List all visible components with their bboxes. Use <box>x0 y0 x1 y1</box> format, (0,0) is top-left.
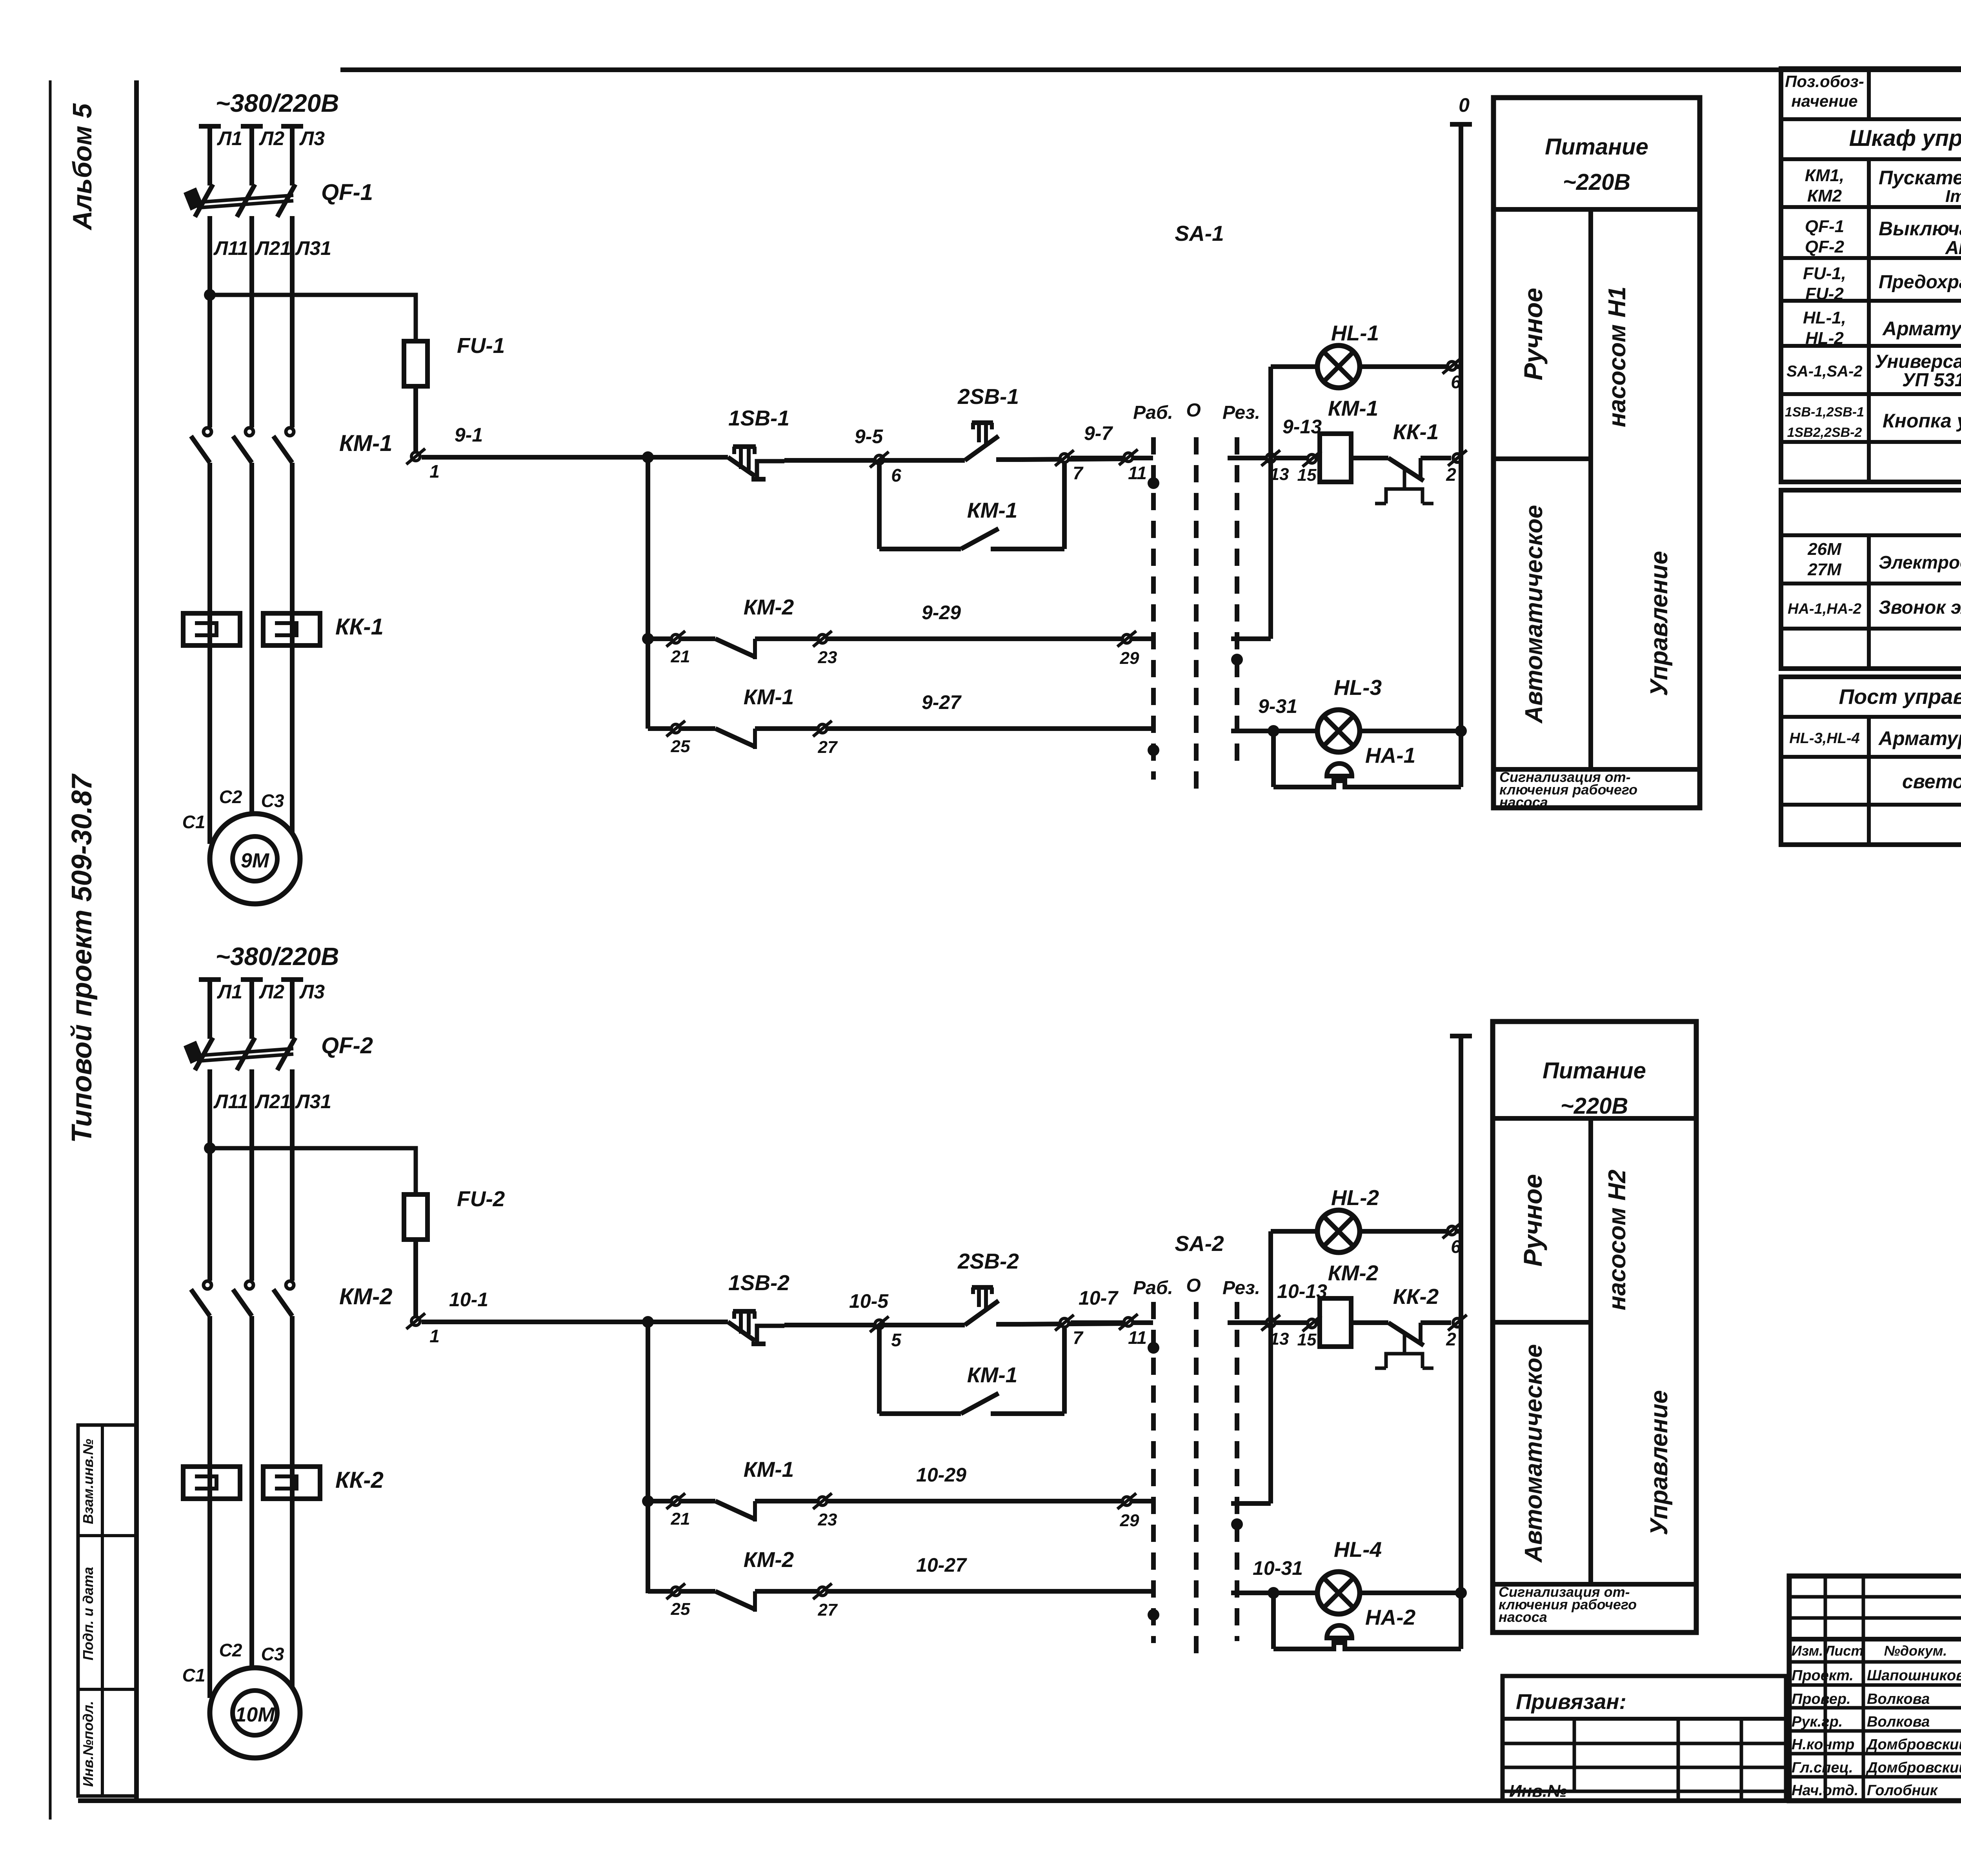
svg-text:15: 15 <box>1297 465 1317 485</box>
bell branch bottom wire (circuit 2) <box>1273 1643 1461 1649</box>
svg-text:21: 21 <box>671 1509 690 1529</box>
phase wire below QF-1 at x=642 <box>249 216 254 427</box>
control rail wire start button to terminal 7 (circuit 2) <box>1021 1323 1128 1324</box>
terminal 11 (circuit 2) <box>1119 1314 1138 1330</box>
motor 10М <box>210 1668 300 1758</box>
svg-text:HL-3,HL-4: HL-3,HL-4 <box>1789 730 1859 747</box>
phase lead Л2 wire (circuit 1) <box>249 126 254 185</box>
signal lamp HL-3 right wire <box>1360 729 1461 733</box>
thermal relay КК-1 heater element at x=671 <box>263 613 320 645</box>
svg-text:Л21: Л21 <box>255 237 291 259</box>
thermal relay contact КК-2 <box>1388 1323 1424 1345</box>
contactor КМ-2 main contact at x=642 <box>246 1281 253 1289</box>
bell branch down wire (circuit 1) <box>1271 731 1276 787</box>
svg-text:HL-1,: HL-1, <box>1803 308 1846 327</box>
thermal relay contact КК-1 <box>1388 458 1424 481</box>
svg-text:Гл.спец.: Гл.спец. <box>1792 1760 1853 1776</box>
svg-text:29: 29 <box>1120 649 1139 668</box>
contactor КМ-1 main contact at x=642 <box>246 428 253 436</box>
legend box outline (circuit 1) <box>1493 98 1700 808</box>
svg-text:10-31: 10-31 <box>1253 1557 1303 1579</box>
junction dot rung A tap (circuit 1) <box>642 633 654 645</box>
svg-text:Рук.гр.: Рук.гр. <box>1792 1714 1843 1730</box>
svg-text:С3: С3 <box>261 791 284 811</box>
svg-text:КК-1: КК-1 <box>335 614 384 640</box>
svg-text:9-27: 9-27 <box>922 691 962 713</box>
attachment block grid row line 2 <box>1503 1766 1786 1769</box>
svg-text:КК-2: КК-2 <box>335 1467 384 1493</box>
svg-text:9-29: 9-29 <box>922 602 961 624</box>
signal lamp HL-1 left wire <box>1271 364 1317 369</box>
selector SA-1 closed-contact dot rung2/Рез <box>1231 654 1243 665</box>
legend box outline (circuit 2) <box>1493 1022 1696 1632</box>
component table block3 row line 3 <box>1781 803 1961 807</box>
terminal 15 (circuit 2) <box>1302 1316 1321 1331</box>
wire fuse FU-1 to control node <box>413 386 418 453</box>
svg-text:21: 21 <box>671 647 690 666</box>
terminal 21 (circuit 2) <box>666 1493 685 1509</box>
terminal 21 (circuit 1) <box>666 631 685 647</box>
terminal 15 (circuit 1) <box>1302 451 1321 467</box>
component table block1 row line 5 <box>1781 299 1961 303</box>
interlock rung A wire (circuit 2) <box>648 1499 715 1503</box>
junction dot on phase Л11 (circuit 1) <box>204 289 216 301</box>
svg-text:Арматура сигнальная с красным: Арматура сигнальная с красным <box>1878 727 1961 749</box>
svg-text:HL-2: HL-2 <box>1805 329 1844 348</box>
auxiliary holding contact КМ-1 (circuit 1) <box>961 529 999 549</box>
terminal 2 (circuit 2) <box>1448 1315 1467 1331</box>
sheet frame left border <box>134 80 139 1801</box>
neutral bus 0 (circuit 2) <box>1459 1036 1463 1649</box>
svg-text:10-29: 10-29 <box>916 1464 966 1486</box>
component table block2 Поз column line <box>1867 535 1871 669</box>
junction dot at bus (signal rung circuit 1) <box>1455 725 1467 737</box>
svg-text:Раб.: Раб. <box>1133 402 1173 423</box>
svg-text:КМ-2: КМ-2 <box>744 1547 794 1572</box>
svg-text:SA-1: SA-1 <box>1175 221 1224 245</box>
phase wire below КМ-2 main contact x=535 <box>207 1316 212 1499</box>
svg-text:HL-3: HL-3 <box>1334 675 1382 700</box>
svg-text:~220В: ~220В <box>1561 1093 1628 1119</box>
signal lamp branch stub to Рез line (circuit 2) <box>1231 1501 1271 1506</box>
component table block1 row line 1 <box>1781 117 1961 121</box>
motor lead C2 wire (circuit 1) <box>249 814 254 815</box>
phase wire below QF-1 at x=745 <box>290 216 295 427</box>
neutral bus 0 (circuit 1) <box>1459 124 1463 787</box>
svg-text:НА-1,НА-2: НА-1,НА-2 <box>1788 601 1861 617</box>
svg-text:насосом Н1: насосом Н1 <box>1604 287 1631 427</box>
component table block3 row line 2 <box>1781 755 1961 759</box>
svg-text:26М: 26М <box>1807 540 1842 559</box>
interlock NC contact КМ-1 (rung A circuit 2) <box>715 1501 755 1519</box>
svg-text:Л31: Л31 <box>295 1091 331 1113</box>
svg-text:Взам.инв.№: Взам.инв.№ <box>80 1439 96 1524</box>
vertical feeder to interlock rungs (circuit 1) <box>646 457 650 729</box>
svg-text:Ручное: Ручное <box>1518 1174 1547 1267</box>
signal lamp HL-2 left wire <box>1271 1229 1317 1234</box>
circuit breaker QF-1 blade at x=642 <box>237 184 255 217</box>
svg-text:Л3: Л3 <box>299 127 325 149</box>
component table column Поз line <box>1867 159 1871 482</box>
svg-text:Л3: Л3 <box>299 981 325 1003</box>
svg-text:1: 1 <box>429 1326 440 1346</box>
svg-text:9-1: 9-1 <box>455 424 483 446</box>
svg-text:1: 1 <box>429 461 440 482</box>
svg-text:11: 11 <box>1128 463 1147 483</box>
control rail wire from node 1 to stop button (circuit 1) <box>422 455 728 460</box>
svg-text:Питание: Питание <box>1545 134 1648 160</box>
svg-text:9-13: 9-13 <box>1282 416 1322 438</box>
svg-text:2SB-2: 2SB-2 <box>957 1249 1019 1273</box>
contactor coil КМ-1 <box>1320 434 1351 482</box>
svg-text:КМ-1: КМ-1 <box>967 1363 1018 1387</box>
title block revision row line 2 <box>1789 1616 1961 1620</box>
terminal 23 (circuit 2) <box>813 1493 832 1509</box>
control rail wire from node 1 to stop button (circuit 2) <box>422 1320 728 1324</box>
attachment block grid column 1 <box>1573 1719 1576 1791</box>
thermal relay КК-2 heater element at x=671 <box>263 1467 320 1499</box>
attachment block grid column 2 <box>1677 1719 1680 1801</box>
interlock NC contact КМ-2 (rung B circuit 2) <box>715 1591 755 1609</box>
legend box column divider (circuit 1) <box>1588 209 1593 769</box>
terminal 7 (circuit 1) <box>1055 450 1074 466</box>
thermal relay КК-2 heater element at x=467 <box>183 1467 240 1499</box>
thermal relay КК-1 heater element at x=467 <box>183 613 240 645</box>
legend box divider Ручное/Автоматическое (circuit 1) <box>1493 456 1591 461</box>
terminal 29 (circuit 1) <box>1117 631 1136 647</box>
terminal 5 (circuit 2) <box>870 1316 889 1332</box>
selector SA-1 closed-contact dot rung3/Раб <box>1148 744 1159 756</box>
svg-text:QF-2: QF-2 <box>321 1033 373 1058</box>
selector SA-2 closed-contact dot rung3/Раб <box>1148 1609 1159 1621</box>
svg-text:КМ-1: КМ-1 <box>744 1457 794 1482</box>
bell branch bottom wire (circuit 1) <box>1273 781 1461 787</box>
circuit breaker QF-1 blade at x=535 <box>195 184 213 217</box>
control rail wire terminal 7 to 11 (circuit 2) <box>1071 1320 1153 1325</box>
svg-text:Шкаф управления 9ШУ (ЯУ5117-03: Шкаф управления 9ШУ (ЯУ5117-03Б2Е) <box>1849 125 1961 151</box>
interlock rung B wire (circuit 2) <box>648 1589 715 1594</box>
wire fuse FU-2 to control node <box>413 1240 418 1318</box>
terminal 2 (circuit 1) <box>1448 450 1467 466</box>
svg-text:Альбом 5: Альбом 5 <box>67 103 97 231</box>
svg-text:Выключатель автоматический тип: Выключатель автоматический типа <box>1879 218 1961 240</box>
svg-text:Проект.: Проект. <box>1792 1667 1854 1684</box>
svg-text:Л2: Л2 <box>259 127 284 149</box>
component table block 2 outline <box>1781 490 1961 669</box>
legend box divider Ручное/Автоматическое (circuit 2) <box>1493 1320 1591 1325</box>
svg-text:Л21: Л21 <box>255 1091 291 1113</box>
motor lead C1 wire (circuit 2) <box>207 1499 212 1698</box>
terminal 27 (circuit 1) <box>813 721 832 736</box>
svg-text:С2: С2 <box>219 787 242 807</box>
svg-text:Автоматическое: Автоматическое <box>1520 1344 1547 1563</box>
svg-text:Изм.: Изм. <box>1792 1643 1823 1659</box>
svg-text:10-5: 10-5 <box>849 1290 889 1312</box>
junction dot feeding interlock rungs (circuit 1) <box>642 451 654 463</box>
svg-text:7: 7 <box>1073 1327 1084 1348</box>
svg-text:Шапошникова: Шапошникова <box>1867 1667 1961 1684</box>
bell branch down wire (circuit 2) <box>1271 1593 1276 1649</box>
coil feed wire from Рез line (circuit 1) <box>1228 456 1320 460</box>
component table block 3 outline <box>1781 677 1961 845</box>
component table header column line 1 <box>1867 69 1871 119</box>
signal lamp branch stub to Рез line (circuit 1) <box>1231 636 1271 641</box>
title block signature row line 1 <box>1789 1660 1961 1664</box>
auxiliary holding contact КМ-1 (circuit 2) <box>961 1393 999 1414</box>
svg-text:29: 29 <box>1120 1511 1139 1530</box>
svg-text:27М: 27М <box>1807 560 1842 579</box>
svg-text:Типовой проект 509-30.87: Типовой проект 509-30.87 <box>66 773 98 1143</box>
svg-text:~380/220В: ~380/220В <box>216 89 339 117</box>
svg-text:27: 27 <box>818 738 838 757</box>
holding contact branch down wire (circuit 1) <box>877 460 882 549</box>
interlock rung A wire (circuit 1) <box>648 636 715 641</box>
terminal 6 at bus (circuit 2) <box>1443 1223 1461 1238</box>
circuit breaker QF-1 blade at x=745 <box>277 184 295 217</box>
svg-text:10-27: 10-27 <box>916 1554 967 1576</box>
svg-text:С2: С2 <box>219 1640 242 1660</box>
legend box column divider (circuit 2) <box>1588 1118 1593 1584</box>
component table block3 row line 1 <box>1781 715 1961 719</box>
svg-text:2: 2 <box>1446 464 1456 485</box>
svg-text:Инв.№: Инв.№ <box>1509 1781 1567 1801</box>
svg-text:Питание: Питание <box>1543 1058 1646 1083</box>
component table block2 row line 1 <box>1781 533 1961 537</box>
svg-text:начение: начение <box>1791 92 1857 110</box>
phase wire below QF-2 at x=535 <box>207 1069 212 1281</box>
svg-text:Н.контр: Н.контр <box>1792 1736 1854 1753</box>
junction dot signal rung (circuit 2) <box>1268 1587 1279 1599</box>
control node terminal 1 (circuit 1) <box>406 449 425 464</box>
contactor КМ-1 main contact at x=535 <box>204 428 211 436</box>
svg-text:15: 15 <box>1297 1330 1317 1349</box>
control rail wire start button to terminal 7 (circuit 1) <box>1021 459 1128 460</box>
svg-text:Пост управления ПС9(ПКУ15-19.1: Пост управления ПС9(ПКУ15-19.121-40УЗ) <box>1839 685 1961 709</box>
svg-text:7: 7 <box>1073 463 1084 483</box>
signal lamp HL-4 <box>1317 1572 1360 1614</box>
outer left page edge line <box>49 80 52 1820</box>
svg-text:1SB2,2SB-2: 1SB2,2SB-2 <box>1787 425 1862 440</box>
attachment block grid row line 1 <box>1503 1742 1786 1745</box>
attachment block outline <box>1503 1676 1786 1801</box>
control rail wire to terminal (circuit 2) <box>784 1323 879 1327</box>
attachment block grid row line 3 <box>1503 1790 1786 1793</box>
motor lead C3 wire (circuit 1) <box>290 645 295 837</box>
stamp column inner divider <box>101 1425 104 1796</box>
svg-text:Л2: Л2 <box>259 981 284 1003</box>
svg-text:QF-1: QF-1 <box>321 180 373 205</box>
control rail wire to terminal (circuit 1) <box>784 458 879 463</box>
svg-text:№докум.: №докум. <box>1884 1643 1947 1659</box>
holding contact branch up wire (circuit 2) <box>1062 1323 1067 1414</box>
svg-text:2SB-1: 2SB-1 <box>957 384 1019 409</box>
svg-text:КК-2: КК-2 <box>1393 1284 1439 1309</box>
svg-text:УП 5312-С86: УП 5312-С86 <box>1902 370 1961 391</box>
terminal 13 (circuit 1) <box>1261 450 1280 466</box>
terminal 25 (circuit 2) <box>666 1583 685 1599</box>
svg-text:Рез.: Рез. <box>1222 402 1260 423</box>
signal lamp HL-1 <box>1317 345 1360 388</box>
contactor КМ-2 main contact at x=745 <box>286 1281 294 1289</box>
junction dot signal rung (circuit 1) <box>1268 725 1279 737</box>
svg-text:Пускатель магнитный типа ПМЕ-1: Пускатель магнитный типа ПМЕ-111, <box>1879 167 1961 189</box>
signal lamp HL-1 right wire <box>1360 364 1461 369</box>
svg-text:Предохранитель типа ПРС-6-П, I: Предохранитель типа ПРС-6-П, Iпл.вст.=6А <box>1879 272 1961 293</box>
svg-text:1SB-1: 1SB-1 <box>728 406 789 430</box>
svg-text:Кнопка управления типа КЕ011УЗ: Кнопка управления типа КЕ011УЗ <box>1883 410 1961 432</box>
svg-text:10М: 10М <box>235 1703 275 1726</box>
contactor coil КМ-2 <box>1320 1298 1351 1347</box>
coil feed wire from Рез line (circuit 2) <box>1228 1320 1320 1325</box>
sheet frame bottom border <box>78 1798 1961 1803</box>
phase lead Л2 top bar (circuit 1) <box>241 124 263 129</box>
svg-text:Провер.: Провер. <box>1792 1691 1851 1707</box>
svg-text:23: 23 <box>818 648 837 667</box>
selector SA-1 position line Рез (dashed) <box>1235 437 1239 769</box>
svg-text:QF-2: QF-2 <box>1805 237 1845 256</box>
svg-text:9-5: 9-5 <box>855 425 883 447</box>
svg-text:~380/220В: ~380/220В <box>216 942 339 971</box>
svg-text:Инв.№подл.: Инв.№подл. <box>80 1701 96 1787</box>
stop button 1SB-1 <box>733 444 756 449</box>
phase lead Л2 wire (circuit 2) <box>249 980 254 1039</box>
motor 9М <box>210 814 300 904</box>
svg-text:насоса: насоса <box>1499 1609 1547 1625</box>
holding contact branch up wire (circuit 1) <box>1062 459 1067 549</box>
svg-text:23: 23 <box>818 1510 837 1529</box>
svg-text:НА-1: НА-1 <box>1365 743 1415 767</box>
phase wire below КМ-2 main contact x=745 <box>290 1316 295 1499</box>
signal lamp HL-3 <box>1317 710 1360 752</box>
phase wire below КМ-2 main contact x=642 <box>249 1316 254 1668</box>
phase lead Л1 wire (circuit 2) <box>207 980 212 1039</box>
interlock rung B wire (circuit 1) <box>648 726 715 731</box>
interlock NC contact КМ-2 (rung A circuit 1) <box>715 639 755 657</box>
svg-text:Звонок электрический типа ЗВП-: Звонок электрический типа ЗВП-220 <box>1879 597 1961 618</box>
svg-text:5: 5 <box>891 1330 902 1350</box>
component table block1 row line 4 <box>1781 256 1961 260</box>
phase wire below КМ-1 main contact x=535 <box>207 463 212 645</box>
svg-text:FU-1: FU-1 <box>457 333 505 358</box>
terminal 7 (circuit 2) <box>1055 1315 1074 1331</box>
legend box divider under Питание (circuit 2) <box>1493 1116 1696 1121</box>
terminal 6 (circuit 1) <box>870 452 889 467</box>
svg-text:НА-2: НА-2 <box>1365 1605 1416 1629</box>
svg-text:25: 25 <box>671 1600 690 1619</box>
svg-text:11: 11 <box>1128 1327 1147 1348</box>
svg-text:КМ-2: КМ-2 <box>339 1284 393 1309</box>
component table block1 row line 3 <box>1781 205 1961 209</box>
selector SA-2 closed-contact dot rung2/Рез <box>1231 1518 1243 1530</box>
title block left part column Изм <box>1824 1576 1827 1801</box>
electric bell НА-2 <box>1327 1625 1352 1638</box>
svg-text:Арматура сигнальная типа АЕ311: Арматура сигнальная типа АЕ31143 <box>1882 318 1961 340</box>
phase lead Л1 top bar (circuit 2) <box>199 977 221 982</box>
svg-text:Волкова: Волкова <box>1867 1714 1930 1730</box>
contactor КМ-1 main contact at x=745 <box>286 428 294 436</box>
svg-text:С1: С1 <box>182 1665 206 1685</box>
title block signature row line 6 <box>1789 1775 1961 1779</box>
title block signature row line 4 <box>1789 1729 1961 1733</box>
selector SA-1 closed-contact dot rail/Раб <box>1148 477 1159 489</box>
svg-text:9М: 9М <box>241 849 270 872</box>
title block signature row line 2 <box>1789 1683 1961 1687</box>
attachment block header line <box>1503 1717 1786 1721</box>
motor lead C1 wire (circuit 1) <box>207 645 212 844</box>
selector SA-2 position line Рез (dashed) <box>1235 1302 1239 1641</box>
phase lead Л3 wire (circuit 1) <box>290 126 295 185</box>
svg-text:Электродвигатель типа 4А112М2,: Электродвигатель типа 4А112М2, N=7,5кВт <box>1879 552 1961 573</box>
svg-text:Домбровский: Домбровский <box>1866 1736 1961 1753</box>
svg-text:Л1: Л1 <box>217 981 242 1003</box>
terminal 27 (circuit 2) <box>813 1583 832 1599</box>
svg-text:~220В: ~220В <box>1563 169 1631 195</box>
svg-text:КМ-1: КМ-1 <box>967 498 1018 522</box>
start button 2SB-1 <box>965 436 999 460</box>
component table block2 row line 2 <box>1781 582 1961 585</box>
component table block2 row line 3 <box>1781 627 1961 631</box>
svg-text:Управление: Управление <box>1646 551 1673 696</box>
motor lead C3 wire (circuit 2) <box>290 1499 295 1691</box>
svg-text:С3: С3 <box>261 1644 284 1664</box>
svg-text:О: О <box>1186 1275 1201 1296</box>
svg-text:FU-1,: FU-1, <box>1803 264 1846 283</box>
svg-text:Iт.р = 16А: Iт.р = 16А <box>1945 187 1961 206</box>
circuit breaker QF-2 handle blob <box>184 1041 203 1064</box>
signal rung wire from Рез line (circuit 2) <box>1231 1591 1317 1595</box>
signal lamp branch vertical wire (circuit 2) <box>1268 1231 1273 1503</box>
svg-text:HL-1: HL-1 <box>1331 321 1379 345</box>
phase wire below QF-2 at x=745 <box>290 1069 295 1281</box>
selector SA-2 position line Раб (dashed) <box>1151 1302 1156 1643</box>
terminal 13 (circuit 2) <box>1261 1315 1280 1331</box>
component table block 1 outline <box>1781 69 1961 482</box>
signal lamp branch vertical wire (circuit 1) <box>1268 367 1273 639</box>
phase lead Л3 wire (circuit 2) <box>290 980 295 1039</box>
stamp column row line 2 <box>78 1688 136 1691</box>
svg-text:FU-2: FU-2 <box>1805 284 1844 304</box>
component table block1 row line 2 <box>1781 157 1961 161</box>
signal lamp HL-2 <box>1317 1210 1360 1252</box>
contactor КМ-2 main contact at x=535 <box>204 1281 211 1289</box>
selector SA-1 position line Раб (dashed) <box>1151 437 1156 780</box>
junction dot at bus (signal rung circuit 2) <box>1455 1587 1467 1599</box>
svg-text:SA-2: SA-2 <box>1175 1231 1224 1256</box>
svg-text:Автоматическое: Автоматическое <box>1521 505 1548 724</box>
control rail wire to start button (circuit 1) <box>879 458 965 463</box>
phase wire below QF-2 at x=642 <box>249 1069 254 1281</box>
fuse FU-2 <box>404 1194 427 1240</box>
svg-text:Домбровский: Домбровский <box>1866 1760 1961 1776</box>
holding contact branch down wire (circuit 2) <box>877 1325 882 1414</box>
title block row line ТП bottom <box>1789 1637 1961 1641</box>
terminal 6 at bus (circuit 1) <box>1443 358 1461 374</box>
svg-text:КМ-2: КМ-2 <box>1328 1261 1379 1285</box>
svg-text:КМ-1: КМ-1 <box>1328 396 1379 420</box>
title block signature row line 5 <box>1789 1752 1961 1756</box>
control node terminal 1 (circuit 2) <box>406 1313 425 1329</box>
phase wire below КМ-1 main contact x=642 <box>249 463 254 815</box>
svg-text:Л11: Л11 <box>213 237 248 259</box>
attachment block grid column 3 <box>1740 1719 1743 1801</box>
svg-text:1SB-2: 1SB-2 <box>728 1271 789 1295</box>
svg-text:светофильтром АСТК: светофильтром АСТК <box>1902 771 1961 793</box>
legend box divider above Сигнализация (circuit 1) <box>1493 767 1700 772</box>
component table block1 row line 7 <box>1781 392 1961 396</box>
svg-text:АП50-3МТ, Iр=25А: АП50-3МТ, Iр=25А <box>1945 238 1961 258</box>
circuit breaker QF-2 linkage bar <box>197 1049 293 1056</box>
svg-text:10-1: 10-1 <box>449 1289 488 1311</box>
